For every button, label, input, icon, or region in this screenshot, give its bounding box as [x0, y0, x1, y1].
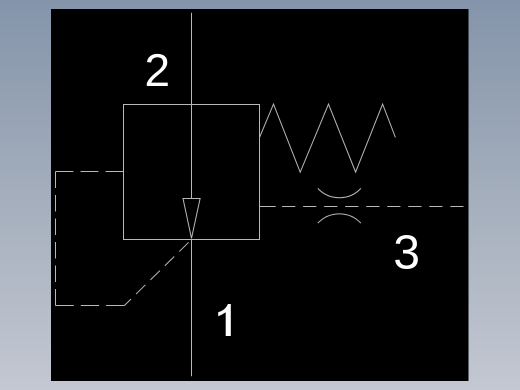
port label 3 [395, 235, 418, 269]
orifice upper arc [318, 188, 361, 197]
wire: pilot line to port 3, first dash [260, 206, 276, 208]
spring [260, 104, 396, 172]
valve body square [124, 105, 260, 240]
flow arrow head [183, 199, 200, 239]
orifice lower arc [318, 214, 361, 223]
black drawing canvas [51, 9, 469, 381]
port label 2 [147, 54, 168, 86]
wire: pilot box left dashed [55, 172, 57, 306]
wire: pilot box bottom dashed [56, 305, 125, 307]
wire: port 1 vertical line (bottom segment) [191, 240, 193, 377]
wire: port 2 vertical line (top segment) [191, 13, 193, 199]
wire: pilot box top dashed [56, 171, 124, 173]
wire: pilot dashed line to port 3 [282, 206, 463, 208]
port label 1 [218, 304, 231, 336]
wire: pilot diagonal dashed [124, 240, 191, 306]
